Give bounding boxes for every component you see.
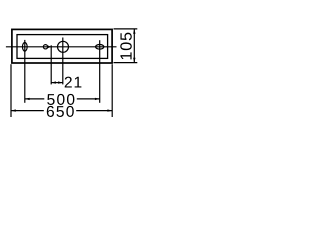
21 left extension line <box>50 45 52 84</box>
105 bottom extension line <box>114 62 138 64</box>
500 dimension line left segment with arrow <box>25 98 45 100</box>
650 right extension line <box>111 64 113 117</box>
21 dimension double arrow <box>51 82 63 84</box>
outer housing rectangle <box>12 29 112 63</box>
650 left extension line <box>10 64 12 117</box>
left mounting slot (vertical oval) <box>22 43 27 52</box>
105 top extension line <box>114 28 138 30</box>
center line <box>6 46 117 48</box>
right slot crosshair / 500 right extension line <box>99 40 101 103</box>
650 dimension line right segment with arrow <box>76 110 112 112</box>
small knockout circle <box>43 45 47 49</box>
500 dimension line right segment with arrow <box>77 98 100 100</box>
inner panel rectangle <box>17 35 108 59</box>
feed arrow (filled) <box>48 45 52 48</box>
left slot crosshair / 500 left extension line <box>24 40 26 103</box>
center hole crosshair / 21 right extension line <box>62 38 64 85</box>
center hole circle <box>58 41 69 52</box>
650 dimension line left segment with arrow <box>11 110 44 112</box>
105 dimension text (rotated) <box>120 33 131 60</box>
right mounting slot (horizontal oval) <box>96 45 104 50</box>
21 dimension text <box>65 77 82 88</box>
650 dimension text <box>47 106 74 117</box>
500 dimension text <box>47 94 74 105</box>
105 dimension line with arrows <box>133 29 135 63</box>
